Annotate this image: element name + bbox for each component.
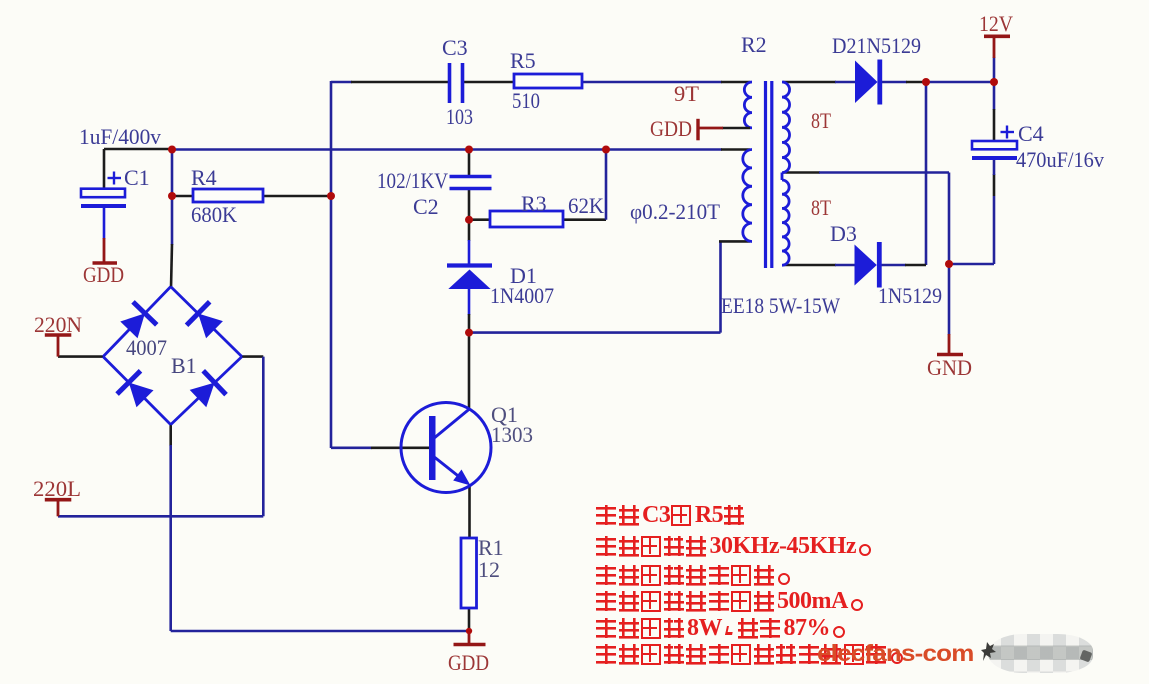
port 220N bar [45, 333, 72, 337]
svg-text:φ0.2-210T: φ0.2-210T [630, 199, 721, 224]
bridge diode bottom-right [190, 383, 215, 408]
wire D1 node to transformer [469, 331, 721, 334]
svg-text:GND: GND [927, 355, 972, 380]
svg-text:102/1KV: 102/1KV [377, 168, 448, 193]
ground GDD tap wire (black) [722, 127, 750, 130]
port 12V stub [993, 36, 996, 58]
svg-text:B1: B1 [171, 353, 197, 378]
ground GDD at C1 stub [103, 238, 106, 263]
bridge diode top-right [198, 314, 223, 339]
wire node to 12V node [926, 81, 994, 84]
wire C4 top (black) [993, 109, 996, 142]
wire 220L riser [262, 357, 265, 517]
transformer secondary tap joint [781, 173, 784, 181]
wire D2 cathode to node (black) [906, 81, 924, 84]
svg-text:8T: 8T [811, 108, 831, 133]
port 220L bar [45, 498, 72, 502]
red note line 3: output voltage needs regulation [596, 565, 793, 586]
bridge edge bottom-left [103, 357, 171, 425]
wire R3 riser [605, 150, 608, 220]
wire R4 left stub (black) [172, 195, 193, 198]
transformer secondary bottom 8T winding [782, 180, 789, 265]
node dot R3 riser top [602, 146, 610, 154]
red note line 5: effective power 8W efficiency 87% [596, 618, 848, 639]
wire center tap blue [819, 171, 949, 174]
resistor R5 [514, 74, 582, 88]
wire C4 below plate [993, 158, 996, 175]
bridge edge bottom-right [171, 357, 242, 425]
wire left vertical x331 [330, 81, 333, 448]
wire D3 cathode stub (black) [905, 264, 926, 267]
wire bridge bottom down [169, 445, 172, 631]
transistor Q1 collector stroke [433, 409, 470, 440]
bridge edge top-right [171, 287, 242, 357]
port 220N stub [57, 335, 60, 357]
transistor Q1 circle [401, 403, 491, 493]
diode D3 triangle [855, 245, 877, 286]
svg-text:R2: R2 [741, 32, 767, 57]
wire tap node right [949, 263, 994, 266]
node dot tap-GND [945, 260, 953, 268]
wire C1 top (black) [104, 148, 172, 151]
mosaic censor block [988, 634, 1093, 673]
svg-text:R3: R3 [521, 191, 547, 216]
wire R4 to bridge black [171, 244, 172, 288]
wire D2 cathode [882, 81, 907, 84]
svg-text:12: 12 [478, 557, 500, 582]
wire bridge bottom (black) [169, 424, 172, 446]
svg-text:1N4007: 1N4007 [490, 283, 554, 308]
transistor Q1 base bar [429, 416, 436, 480]
wire C3 to R5 (black) [463, 81, 514, 84]
capacitor C1 plus sign [108, 177, 122, 179]
cursor icon [981, 640, 1003, 664]
diode D1 cathode bar [447, 263, 492, 267]
ground GDD tap red wire [698, 127, 723, 130]
capacitor C1 bottom plate [81, 204, 126, 208]
ground GDD at R1 bar [454, 643, 486, 647]
svg-text:62K: 62K [568, 193, 604, 218]
svg-text:GDD: GDD [650, 116, 692, 141]
transformer core line right [770, 81, 773, 268]
svg-text:470uF/16v: 470uF/16v [1016, 147, 1104, 172]
wire base from x331 [331, 446, 372, 449]
node dot R1 bottom [466, 628, 472, 634]
wire C1 below plate [103, 206, 106, 239]
wire secondary bottom to D3 (black) [783, 264, 836, 267]
wire 12V to C4 (black then blue) [993, 82, 996, 110]
svg-text:GDD: GDD [448, 650, 489, 675]
wire R1 to GDD node (black) [468, 608, 471, 631]
wire 1uF net [172, 148, 469, 151]
wire R4 to bridge [171, 196, 174, 245]
wire D1 to Q1 collector (black) [468, 314, 471, 409]
wire to C3 (black) [351, 81, 448, 84]
svg-text:1N5129: 1N5129 [878, 283, 942, 308]
svg-text:R4: R4 [191, 165, 217, 190]
svg-text:9T: 9T [674, 81, 700, 106]
svg-text:EE18 5W-15W: EE18 5W-15W [721, 293, 840, 318]
node dot 1uF net at C1 [168, 146, 176, 154]
wire D1 anode down [468, 288, 471, 315]
red note line 1: adjust C3 and R5 [596, 505, 747, 526]
diode D2 triangle [855, 61, 878, 104]
node dot C2 top [465, 146, 473, 154]
wire tap down x949 [948, 173, 951, 265]
wire C4 bottom riser [993, 196, 996, 264]
ground GND stub [948, 334, 951, 355]
wire bridge right stub (black) [241, 355, 263, 358]
wire primary bottom stub (black) [719, 240, 750, 243]
capacitor C4 top plate [972, 141, 1017, 149]
wire net to C2 (black) [468, 150, 471, 176]
svg-text:8T: 8T [811, 195, 831, 220]
node dot D1 anode [465, 329, 473, 337]
svg-text:C4: C4 [1018, 121, 1044, 146]
svg-text:D3: D3 [830, 221, 857, 246]
diode D1 triangle [448, 270, 490, 290]
port 12V bar [984, 34, 1010, 38]
watermark elecfans.com [817, 640, 974, 668]
wire transformer riser x720 [719, 241, 722, 332]
bridge diode top-left [120, 313, 145, 338]
wire center tap (black) [783, 171, 820, 174]
svg-text:220N: 220N [34, 312, 82, 337]
resistor R4 [193, 189, 263, 202]
wire into primary lower (black) [721, 148, 750, 151]
diode D3 cathode bar [877, 242, 882, 288]
bridge edge top-left [103, 287, 171, 357]
transistor Q1 emitter arrow [453, 470, 470, 486]
svg-text:GDD: GDD [83, 262, 124, 287]
wire C2 to R3 node (black) [468, 189, 471, 220]
svg-text:510: 510 [512, 88, 540, 113]
wire top net left segment [331, 81, 352, 84]
svg-text:680K: 680K [191, 202, 237, 227]
capacitor C3 left plate [448, 63, 452, 103]
capacitor C1 top plate [81, 189, 125, 198]
wire net to primary [606, 148, 722, 151]
svg-text:4007: 4007 [126, 335, 167, 360]
wire cathode join vertical [925, 82, 928, 265]
wire D3 cathode [881, 264, 906, 267]
svg-text:D21N5129: D21N5129 [832, 33, 921, 58]
ground GDD tap bar [696, 119, 699, 141]
transformer secondary top 8T winding [782, 82, 790, 173]
wire into primary (black) [721, 81, 750, 84]
node dot D2 cathode [922, 78, 930, 86]
wire GND drop [948, 264, 951, 335]
transformer primary 9T winding [744, 82, 752, 128]
port 220L stub [57, 500, 60, 517]
svg-text:12V: 12V [979, 11, 1013, 36]
svg-text:1uF/400v: 1uF/400v [79, 124, 161, 149]
red note line 4: output current up to 500mA [596, 591, 865, 612]
wire D3 anode [835, 264, 855, 267]
svg-text:1303: 1303 [491, 422, 533, 447]
bridge diode bottom-left [129, 382, 154, 407]
wire C4 bottom (black) [993, 174, 996, 196]
diode D2 cathode bar [877, 60, 882, 105]
wire emitter to R1 (black) [468, 485, 471, 539]
wire C1 down to plate (black) [103, 149, 106, 189]
wire base (black) [371, 446, 430, 449]
node dot R4 right [327, 192, 335, 200]
wire R5 to transformer [582, 81, 722, 84]
transistor Q1 emitter stroke [433, 456, 462, 479]
resistor R1 [461, 538, 477, 608]
wire 12V node up [993, 57, 996, 82]
capacitor C4 plus sign [1001, 131, 1015, 133]
svg-text:C3: C3 [442, 35, 468, 60]
wire dot to R4 level [171, 149, 174, 196]
capacitor C2 top plate [450, 175, 492, 179]
wire secondary top to D2 (black) [783, 81, 836, 84]
wire 220N to bridge (black) [58, 355, 104, 358]
ground GDD at R1 stub [468, 631, 471, 645]
wire net to R3 riser [469, 148, 606, 151]
capacitor C3 right plate [461, 63, 465, 103]
node dot C2-R3 [465, 216, 473, 224]
resistor R3 [490, 211, 563, 227]
wire R4 right stub (black) [263, 195, 331, 198]
capacitor C4 bottom plate [972, 156, 1017, 160]
ground GDD at C1 bar [93, 261, 118, 265]
svg-text:103: 103 [446, 104, 473, 129]
wire node to D1 (black) [468, 220, 471, 241]
svg-text:220L: 220L [33, 476, 81, 501]
wire to D1 cathode [468, 240, 471, 266]
capacitor C2 bottom plate [450, 187, 492, 191]
wire 220L horizontal [58, 515, 263, 518]
wire R3 left stub (black) [469, 218, 490, 221]
red note line 6: other no requirements works normally [596, 644, 905, 665]
transformer primary main winding [743, 150, 752, 242]
transformer core line left [764, 81, 767, 268]
svg-text:C2: C2 [413, 194, 439, 219]
wire bottom to R1/GDD [171, 630, 469, 633]
ground GND bar [937, 353, 963, 357]
node dot 12V rail [990, 78, 998, 86]
node dot R4 left [168, 192, 176, 200]
wire D2 anode [835, 81, 856, 84]
svg-text:C1: C1 [124, 165, 150, 190]
red note line 2: oscillation frequency 30KHz-45KHz [596, 536, 873, 557]
wire R3 right stub (black) [563, 218, 606, 221]
svg-text:R5: R5 [510, 48, 536, 73]
